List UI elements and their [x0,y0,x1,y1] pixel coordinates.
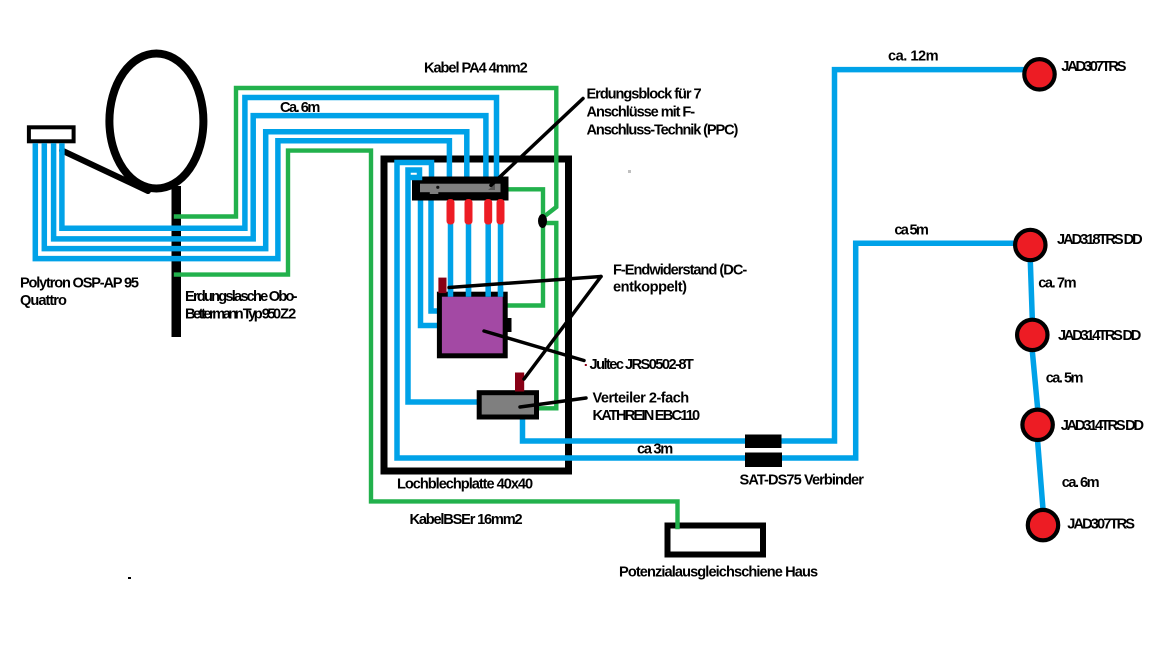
svg-text:ca. 12m: ca. 12m [888,49,939,65]
svg-text:KabelBSEr 16mm2: KabelBSEr 16mm2 [410,512,523,528]
svg-text:ca 3m: ca 3m [637,442,673,458]
svg-text:ca. 7m: ca. 7m [1038,276,1076,292]
svg-text:KATHREIN EBC110: KATHREIN EBC110 [593,408,701,424]
svg-text:Erdungsblock für 7: Erdungsblock für 7 [587,87,702,103]
svg-text:Polytron OSP-AP 95: Polytron OSP-AP 95 [20,276,139,292]
svg-text:ca. 5m: ca. 5m [1046,370,1084,386]
svg-text:Erdungslasche Obo-: Erdungslasche Obo- [185,289,298,305]
svg-text:Verteiler 2-fach: Verteiler 2-fach [593,391,690,407]
svg-text:JAD307TRS: JAD307TRS [1067,516,1135,532]
svg-text:entkoppelt): entkoppelt) [613,280,687,296]
svg-text:ca 5m: ca 5m [894,223,928,239]
svg-text:Quattro: Quattro [20,293,67,309]
svg-text:Bettermann Typ 950 Z 2: Bettermann Typ 950 Z 2 [185,307,296,323]
svg-text:Anschluss-Technik (PPC): Anschluss-Technik (PPC) [587,123,739,139]
svg-text:Potenzialausgleichschiene Haus: Potenzialausgleichschiene Haus [619,565,818,581]
svg-text:Jultec JRS0502-8T: Jultec JRS0502-8T [590,357,694,373]
svg-text:Lochblechplatte 40x40: Lochblechplatte 40x40 [397,477,533,493]
svg-text:ca. 6m: ca. 6m [1062,475,1100,491]
svg-text:Kabel PA4 4mm2: Kabel PA4 4mm2 [424,61,528,77]
svg-text:JAD318TRS DD: JAD318TRS DD [1057,232,1142,248]
svg-text:F-Endwiderstand (DC-: F-Endwiderstand (DC- [613,263,747,279]
svg-text:JAD307TRS: JAD307TRS [1061,59,1126,75]
svg-text:Anschlüsse mit F-: Anschlüsse mit F- [587,105,696,121]
svg-text:SAT-DS75 Verbinder: SAT-DS75 Verbinder [740,473,865,489]
svg-text:JAD314TRS DD: JAD314TRS DD [1061,418,1144,434]
svg-text:JAD314TRS DD: JAD314TRS DD [1058,328,1141,344]
svg-text:Ca. 6m: Ca. 6m [280,100,320,116]
